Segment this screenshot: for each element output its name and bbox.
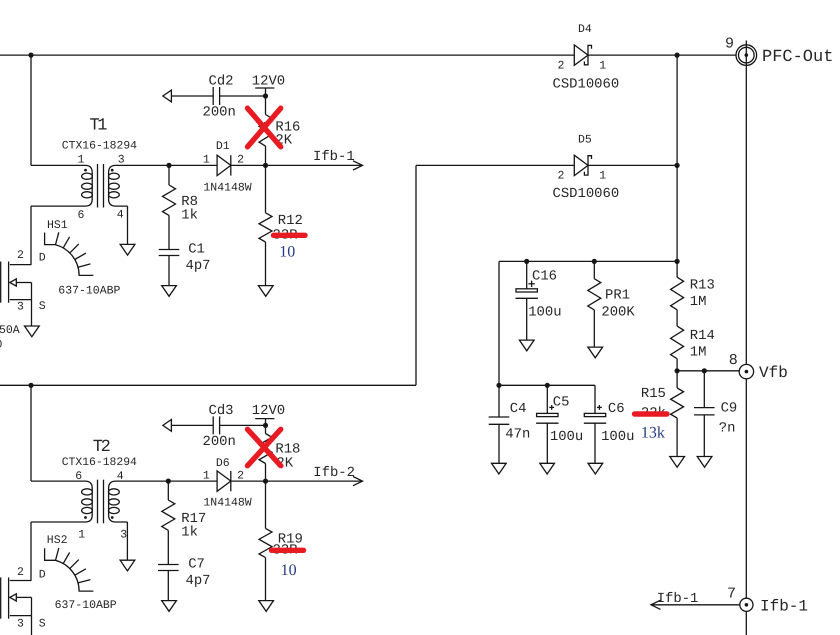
- capacitor C16 100u: [516, 261, 562, 320]
- svg-text:D1: D1: [216, 140, 230, 153]
- svg-text:CTX16-18294: CTX16-18294: [62, 457, 137, 469]
- svg-text:1N4148W: 1N4148W: [203, 181, 251, 194]
- capacitor C1 4p7: [159, 241, 211, 274]
- wire T1 core: [97, 164, 99, 208]
- ground C7: [162, 601, 177, 612]
- svg-text:Vfb: Vfb: [759, 364, 788, 382]
- ground R15: [670, 457, 685, 468]
- wire right edge vertical: [745, 41, 747, 635]
- wire HV bus vertical: [676, 55, 678, 277]
- ground C5: [540, 463, 555, 474]
- wire T1 secondary pin3 to D1: [109, 165, 169, 206]
- wire Q1 source to ground: [31, 300, 33, 326]
- signal arrow Ifb-1: [266, 149, 363, 170]
- resistor R19: [259, 481, 303, 600]
- svg-text:1k: 1k: [181, 208, 198, 224]
- capacitor C7 4p7: [158, 556, 211, 589]
- svg-text:C6: C6: [608, 401, 625, 417]
- svg-text:100u: 100u: [601, 429, 634, 445]
- svg-text:?n: ?n: [719, 421, 736, 437]
- capacitor C5 100u: [536, 385, 583, 445]
- Q2 pin labels: [17, 566, 46, 631]
- power 12V0 phase2: [252, 403, 285, 425]
- svg-text:200n: 200n: [203, 434, 236, 450]
- svg-text:2: 2: [17, 566, 24, 579]
- node R15 top junction: [675, 368, 680, 373]
- connector pin 7 Ifb-1: [727, 585, 808, 615]
- wire cap rail: [499, 384, 595, 386]
- node D5 cathode junction: [675, 163, 680, 168]
- svg-text:200n: 200n: [203, 105, 236, 121]
- svg-text:50A: 50A: [0, 324, 20, 337]
- wire T1 junction to D1 anode: [169, 164, 217, 166]
- ground R19: [259, 601, 274, 612]
- svg-text:T2: T2: [93, 438, 110, 457]
- wire D4 cathode to PFC-Out: [588, 54, 736, 56]
- svg-text:D6: D6: [216, 457, 230, 470]
- svg-text:47n: 47n: [505, 427, 530, 443]
- node T2 pin4 junction: [166, 479, 171, 484]
- wire PR1 to ground: [593, 310, 595, 347]
- node C4 junction: [496, 383, 501, 388]
- svg-text:100u: 100u: [528, 305, 561, 321]
- red X annotation over R18: [248, 429, 281, 465]
- wire Ifb-1 signal arrow: [651, 591, 740, 610]
- wire D6 cathode to node: [231, 480, 266, 482]
- svg-text:7: 7: [727, 585, 736, 602]
- svg-text:637-10ABP: 637-10ABP: [58, 284, 120, 297]
- wire vertical x416 rail to D5: [415, 165, 417, 385]
- svg-text:1k: 1k: [181, 525, 198, 541]
- svg-text:100u: 100u: [550, 429, 583, 445]
- svg-text:2: 2: [237, 154, 244, 167]
- ground T1 pin4: [120, 244, 135, 255]
- resistor R14 1M: [671, 326, 715, 360]
- svg-text:1: 1: [599, 170, 606, 183]
- node C9 junction: [702, 368, 707, 373]
- capacitor C6 100u: [584, 385, 635, 445]
- svg-text:C16: C16: [532, 268, 557, 284]
- svg-text:200K: 200K: [601, 305, 635, 321]
- ground C16: [519, 340, 534, 351]
- svg-text:Ifb-1: Ifb-1: [657, 591, 699, 607]
- svg-text:D4: D4: [578, 23, 592, 36]
- node 12V0 junction: [263, 93, 268, 98]
- wire R14 to Vfb node: [676, 359, 678, 371]
- wire C5 to ground: [546, 423, 548, 463]
- wire arrow to Cd3: [171, 424, 213, 426]
- wire C6 to ground: [594, 423, 596, 463]
- ground C6: [588, 463, 603, 474]
- diode D6 1N4148W: [203, 457, 252, 509]
- svg-text:2: 2: [558, 59, 565, 72]
- svg-text:R15: R15: [641, 386, 666, 402]
- wire Cd3 to 12V0 node: [220, 424, 266, 426]
- svg-text:S: S: [39, 617, 46, 630]
- svg-text:R12: R12: [278, 213, 303, 229]
- net arrow Cd2 left: [163, 90, 172, 102]
- svg-text:1: 1: [78, 154, 85, 167]
- svg-text:9: 9: [725, 36, 734, 53]
- svg-text:3: 3: [120, 528, 127, 541]
- wire T2 core: [97, 480, 99, 524]
- wire T1 pin4 to ground: [127, 206, 129, 244]
- wire T1 pin6 to Q1 drain: [30, 206, 32, 265]
- transformer T1 CTX16-18294: [62, 117, 137, 222]
- diode D4 CSD10060: [553, 23, 620, 92]
- svg-text:3: 3: [17, 301, 24, 314]
- signal arrow Ifb-2: [266, 465, 363, 486]
- capacitor C9 ?n: [694, 371, 737, 457]
- wire arrow to Cd2: [171, 95, 213, 97]
- svg-text:2: 2: [17, 249, 24, 262]
- resistor R12: [259, 165, 303, 285]
- wire bus node to C16 PR1: [499, 260, 677, 262]
- svg-text:D: D: [39, 568, 46, 581]
- wire R13 to R14: [676, 310, 678, 326]
- node Ifb-2 junction: [263, 479, 268, 484]
- svg-text:10: 10: [281, 562, 297, 579]
- ground T2 pin3: [120, 560, 135, 571]
- wire top rail left of D4: [0, 54, 574, 56]
- svg-text:CSD10060: CSD10060: [553, 76, 620, 92]
- svg-text:Cd2: Cd2: [209, 74, 234, 90]
- svg-text:C7: C7: [188, 556, 205, 572]
- svg-text:1: 1: [203, 470, 210, 483]
- svg-text:Ifb-1: Ifb-1: [760, 597, 808, 615]
- wire D5 cathode to bus: [588, 164, 677, 166]
- svg-text:Cd3: Cd3: [209, 403, 234, 419]
- connector pin 8 Vfb: [729, 352, 788, 382]
- svg-text:R14: R14: [690, 328, 715, 344]
- resistor R18 2K: [259, 425, 300, 481]
- node bus to divider junction: [675, 259, 680, 264]
- heatsink HS2 637-10ABP: [45, 534, 117, 612]
- diode D1 1N4148W: [203, 140, 252, 195]
- capacitor C4 47n: [489, 385, 531, 463]
- svg-text:12V0: 12V0: [252, 74, 285, 90]
- Q1 pin labels: [0, 249, 46, 352]
- node D4 cathode bus junction: [675, 53, 680, 58]
- wire Q2 source down: [31, 616, 33, 635]
- wire T1 pin1 from switch node: [31, 165, 92, 206]
- svg-text:R13: R13: [690, 278, 715, 294]
- heatsink HS1 637-10ABP: [45, 219, 121, 297]
- wire Cd2 to 12V0 node: [220, 95, 266, 97]
- svg-text:6: 6: [78, 209, 85, 222]
- svg-text:4p7: 4p7: [186, 573, 211, 589]
- svg-text:C4: C4: [510, 401, 527, 417]
- svg-text:C5: C5: [553, 394, 570, 410]
- transistor Q1 MOSFET phase 1: [1, 262, 32, 303]
- svg-text:D: D: [39, 251, 46, 264]
- svg-text:2: 2: [558, 170, 565, 183]
- resistor R17 1k: [162, 481, 207, 541]
- resistor R15: [641, 371, 684, 457]
- node C16 junction: [524, 259, 529, 264]
- svg-text:PFC-Out: PFC-Out: [762, 48, 833, 67]
- connector pin 9 PFC-Out: [725, 36, 833, 68]
- wire R8 to C1: [168, 215, 170, 249]
- svg-text:0: 0: [0, 339, 3, 352]
- wire C16 to ground: [526, 298, 528, 340]
- svg-text:PR1: PR1: [605, 288, 630, 304]
- ground C4: [492, 463, 507, 474]
- resistor PR1 200K: [588, 261, 636, 320]
- capacitor Cd2 200n: [203, 74, 236, 121]
- resistor R13 1M: [671, 277, 715, 310]
- power 12V0 phase1: [252, 74, 285, 97]
- svg-text:8: 8: [729, 352, 738, 369]
- svg-text:1N4148W: 1N4148W: [203, 496, 251, 509]
- svg-text:CSD10060: CSD10060: [553, 186, 620, 202]
- ground R12: [258, 286, 273, 297]
- red strike annotation R19 value: [272, 548, 304, 553]
- svg-text:D5: D5: [578, 134, 592, 147]
- wire left drop to cap rail: [498, 261, 500, 385]
- svg-text:1M: 1M: [690, 294, 707, 310]
- wire C1 to ground: [168, 256, 170, 286]
- svg-text:HS1: HS1: [47, 219, 68, 232]
- wire phase 2 rail: [0, 384, 416, 386]
- svg-text:637-10ABP: 637-10ABP: [55, 599, 117, 612]
- wire D5 anode feed: [416, 164, 574, 166]
- wire T2 pin3 to ground: [126, 522, 128, 560]
- node PR1 junction: [592, 259, 597, 264]
- wire T2 junction to D6 anode: [168, 480, 217, 482]
- net arrow Cd3 left: [163, 420, 172, 432]
- svg-text:CTX16-18294: CTX16-18294: [62, 140, 137, 152]
- wire T2 pin4 to D6 node: [109, 481, 169, 522]
- node phase 2 rail junction: [28, 383, 33, 388]
- node C5 junction: [545, 383, 550, 388]
- svg-text:1: 1: [203, 154, 210, 167]
- red strike annotation R15 value: [635, 411, 668, 416]
- svg-text:13k: 13k: [641, 425, 665, 442]
- svg-text:12V0: 12V0: [252, 403, 285, 419]
- wire Vfb row: [677, 370, 739, 372]
- transistor Q2 MOSFET phase 2: [1, 577, 32, 618]
- svg-text:HS2: HS2: [47, 534, 68, 547]
- svg-text:C1: C1: [188, 241, 205, 257]
- svg-text:T1: T1: [90, 117, 108, 136]
- svg-text:1: 1: [599, 59, 606, 72]
- diode D5 CSD10060: [553, 134, 620, 202]
- svg-text:4p7: 4p7: [186, 258, 211, 274]
- node Ifb-1 junction: [263, 163, 268, 168]
- svg-text:4: 4: [117, 209, 124, 222]
- node switch node phase 1 junction: [28, 53, 33, 58]
- wire R17 to C7: [167, 530, 169, 564]
- capacitor Cd3 200n: [203, 403, 236, 450]
- wire T2 pin6 from phase2 node: [30, 385, 32, 481]
- svg-text:1M: 1M: [690, 345, 707, 361]
- wire C7 to ground: [167, 571, 169, 601]
- node T1 pin3 junction: [166, 163, 171, 168]
- ground PR1: [588, 347, 603, 358]
- resistor R8 1k: [163, 165, 198, 223]
- ground Q1 source: [25, 326, 40, 337]
- red strike annotation R12 value: [274, 233, 306, 238]
- wire D1 cathode to node: [231, 164, 266, 166]
- svg-text:Ifb-1: Ifb-1: [313, 149, 355, 165]
- transformer T2 CTX16-18294: [62, 438, 137, 542]
- wire vertical x31 to T1 pin1: [30, 55, 32, 165]
- resistor R16 2K: [259, 96, 300, 165]
- svg-text:S: S: [39, 300, 46, 313]
- wire T2 pin1 to Q2 drain: [30, 522, 32, 581]
- node 12V0 junction 2: [263, 423, 268, 428]
- svg-text:Ifb-2: Ifb-2: [313, 465, 355, 481]
- svg-text:3: 3: [17, 618, 24, 631]
- red X annotation over R16: [248, 108, 281, 147]
- ground C9: [697, 457, 712, 468]
- svg-text:1: 1: [78, 528, 85, 541]
- svg-text:10: 10: [279, 244, 295, 261]
- svg-text:3: 3: [118, 154, 125, 167]
- ground C1: [162, 286, 177, 297]
- svg-text:C9: C9: [721, 401, 738, 417]
